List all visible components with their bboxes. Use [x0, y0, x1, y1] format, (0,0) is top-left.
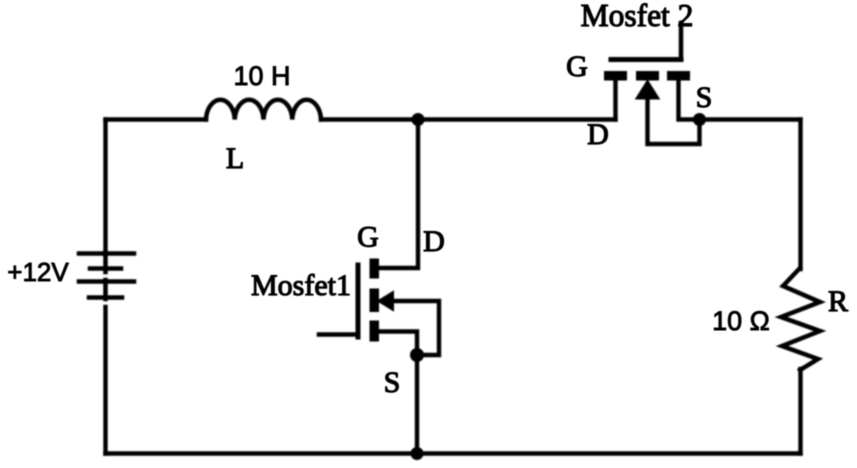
mosfet Q2 body wire to source	[648, 95, 700, 144]
mosfet Q2 gate lead wire	[679, 23, 684, 60]
svg-text:L: L	[226, 142, 244, 175]
battery +12V plate 1 long	[79, 251, 134, 256]
svg-text:R: R	[828, 285, 848, 318]
wire right vertical bottom	[798, 369, 802, 454]
mosfet Q1 channel bar body segment	[370, 289, 380, 313]
svg-text:G: G	[566, 50, 588, 83]
svg-text:S: S	[696, 81, 713, 114]
battery plate connector stub 1	[103, 252, 108, 272]
mosfet Q2 (Mosfet 2) gate line	[611, 57, 681, 62]
node B bottom junction dot	[411, 447, 424, 460]
mosfet Q1 source lead wire	[379, 332, 417, 454]
mosfet Q1 body wire to source	[393, 301, 439, 355]
svg-text:G: G	[357, 221, 379, 254]
mosfet Q1 source junction dot	[410, 348, 424, 362]
svg-text:10 Ω: 10 Ω	[712, 306, 770, 336]
wire right vertical top	[798, 120, 802, 270]
wire node A to mosfet2 drain lead	[418, 117, 616, 121]
mosfet Q2 source lead wire	[679, 81, 700, 120]
svg-text:D: D	[587, 118, 609, 151]
wire top-left horizontal	[106, 117, 207, 121]
wire inductor to node A	[321, 117, 418, 121]
mosfet Q1 channel bar drain segment	[370, 259, 380, 279]
mosfet Q2 source junction dot	[693, 113, 706, 126]
svg-text:S: S	[384, 366, 401, 399]
mosfet Q1 body arrow	[379, 292, 394, 310]
wire mosfet2 source to top-right corner	[700, 117, 801, 121]
svg-text:Mosfet1: Mosfet1	[251, 269, 351, 302]
resistor R zigzag	[781, 268, 820, 370]
inductor L (10 H)	[206, 100, 321, 120]
wire bottom horizontal	[106, 451, 801, 455]
mosfet Q1 drain lead wire	[379, 121, 418, 268]
mosfet Q1 gate lead wire	[319, 332, 358, 337]
battery +12V plate 4 short	[89, 295, 122, 300]
mosfet Q2 channel bar drain segment	[604, 71, 627, 81]
wire left vertical top (battery +)	[103, 120, 107, 254]
mosfet Q2 drain lead wire	[613, 81, 617, 120]
mosfet Q1 channel bar source segment	[370, 321, 380, 342]
svg-text:+12V: +12V	[7, 257, 69, 287]
mosfet Q2 channel bar source segment	[667, 71, 690, 81]
svg-text:10 H: 10 H	[233, 61, 290, 91]
battery plate connector stub 2	[103, 280, 108, 299]
mosfet Q2 channel bar body segment	[636, 71, 659, 81]
svg-text:D: D	[423, 225, 445, 258]
mosfet Q1 (Mosfet1) gate line	[356, 265, 361, 337]
wire left vertical bottom (battery -)	[103, 307, 107, 454]
svg-text:Mosfet 2: Mosfet 2	[581, 0, 694, 33]
battery +12V plate 3 long	[79, 279, 134, 284]
node A junction dot	[412, 113, 425, 126]
mosfet Q2 body arrow	[637, 81, 659, 99]
battery +12V plate 2 short	[90, 266, 121, 271]
